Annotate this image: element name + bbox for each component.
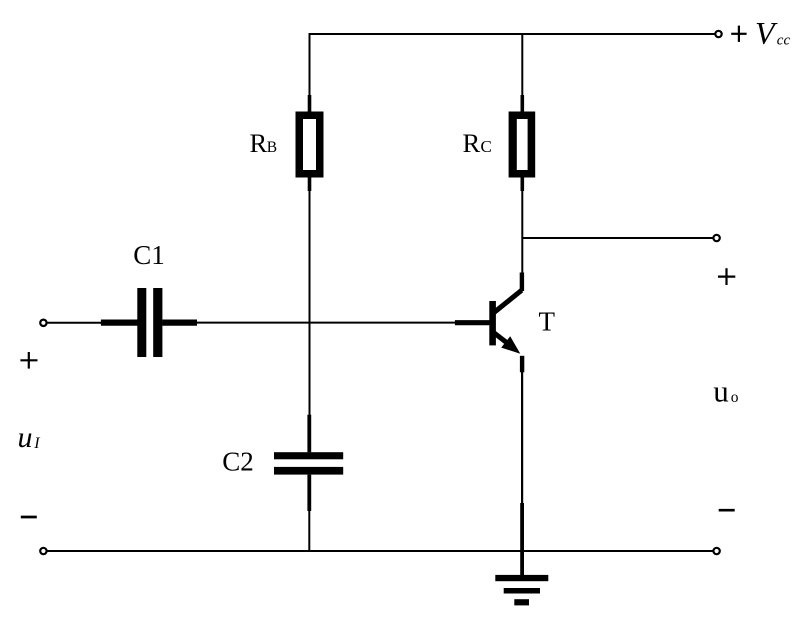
svg-text:u: u — [713, 374, 729, 409]
svg-text:T: T — [539, 307, 556, 337]
label + Vcc — [731, 15, 790, 51]
capacitor C2 — [274, 415, 343, 511]
ground — [495, 575, 548, 606]
label C1 — [133, 240, 165, 270]
label uo — [713, 374, 738, 409]
terminal Vcc — [715, 31, 721, 37]
wire C2 to bottom rail — [308, 510, 310, 552]
wire collector vertical — [521, 190, 523, 274]
wire output — [522, 237, 712, 239]
label + output — [718, 268, 735, 285]
terminal bottom right — [713, 548, 719, 554]
svg-text:B: B — [267, 139, 277, 156]
svg-text:C2: C2 — [222, 447, 254, 477]
wire top supply rail — [310, 33, 715, 35]
svg-text:cc: cc — [777, 32, 791, 48]
wire emitter to ground — [521, 371, 523, 576]
svg-text:C: C — [481, 137, 492, 156]
wire RB lower vertical — [309, 190, 311, 416]
svg-text:u: u — [18, 421, 33, 454]
label RB — [250, 128, 278, 158]
label - input — [21, 516, 37, 519]
terminal input — [40, 320, 46, 326]
svg-text:o: o — [731, 389, 739, 406]
capacitor C1 — [101, 288, 197, 357]
label + input — [20, 352, 37, 369]
label uI — [18, 421, 41, 454]
terminal output — [713, 235, 719, 241]
transistor T — [489, 273, 522, 373]
label - output — [719, 509, 735, 512]
wire base — [197, 322, 490, 324]
resistor RC — [509, 112, 536, 192]
wire RB branch upper — [309, 33, 311, 112]
label RC — [463, 128, 492, 158]
wire RC branch upper — [521, 33, 523, 112]
svg-text:I: I — [33, 435, 40, 452]
label C2 — [222, 447, 254, 477]
wire input lead — [48, 322, 103, 324]
resistor RB — [296, 112, 324, 192]
svg-text:C1: C1 — [133, 240, 165, 270]
svg-text:R: R — [250, 128, 268, 158]
terminal bottom left — [40, 548, 46, 554]
label T — [539, 307, 556, 337]
wire bottom rail — [48, 550, 713, 552]
svg-text:R: R — [463, 128, 481, 158]
